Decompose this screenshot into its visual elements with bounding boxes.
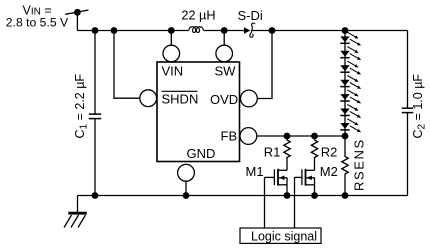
diode S-Di — [244, 23, 255, 37]
junction dot LED string top — [342, 27, 349, 34]
svg-text:M1: M1 — [246, 164, 264, 179]
junction dot SHDN branch — [111, 27, 118, 34]
wire VIN drop to top rail — [76, 12, 78, 30]
wire FB horizontal — [257, 135, 345, 137]
overline of SHDN — [162, 90, 198, 92]
transistor M1 — [265, 169, 288, 196]
capacitor C1 — [89, 31, 101, 196]
op-amp U1 IC body — [157, 62, 240, 162]
wire top rail middle segment — [204, 30, 244, 32]
LED D2 — [340, 47, 360, 60]
wire M2 gate to logic box — [294, 177, 296, 228]
svg-text:C1 = 2.2 µF: C1 = 2.2 µF — [73, 74, 90, 139]
pin circle VIN — [163, 45, 180, 62]
svg-text:SHDN: SHDN — [162, 91, 199, 106]
inductor L 22uH — [189, 27, 204, 33]
pin circle FB — [240, 128, 257, 145]
svg-text:RSENS: RSENS — [352, 138, 367, 191]
LED D7 — [340, 119, 360, 132]
svg-text:S-Di: S-Di — [238, 8, 263, 23]
wire top rail left segment — [77, 30, 188, 32]
wire SHDN branch — [114, 31, 140, 99]
svg-text:R2: R2 — [321, 145, 338, 160]
pin circle SW — [216, 45, 233, 62]
svg-text:22 µH: 22 µH — [181, 9, 215, 23]
svg-text:VIN: VIN — [162, 64, 184, 79]
junction dot GND pin — [183, 192, 190, 199]
svg-text:2.8 to 5.5 V: 2.8 to 5.5 V — [6, 16, 69, 30]
svg-text:OVD: OVD — [210, 92, 238, 107]
wire M1 gate to logic box — [264, 177, 266, 228]
resistor R1 — [284, 136, 290, 170]
LED string wire — [344, 31, 346, 137]
LED D3 — [340, 61, 360, 74]
wire bottom rail — [78, 195, 408, 197]
junction dot VIN pin — [168, 27, 175, 34]
pin circle OVD — [241, 90, 258, 107]
node VIN input terminal tap — [65, 9, 88, 16]
transistor M2 — [295, 169, 315, 196]
ground — [64, 196, 87, 228]
LED D6 — [340, 104, 360, 117]
junction dot LED string bottom — [342, 133, 349, 140]
junction dot RSENS bottom — [342, 192, 349, 199]
capacitor C2 — [402, 31, 413, 196]
svg-text:M2: M2 — [320, 164, 338, 179]
junction dot M1 source — [284, 192, 291, 199]
junction dot C1 top — [92, 27, 99, 34]
svg-text:SW: SW — [215, 64, 237, 79]
svg-text:R1: R1 — [264, 145, 281, 160]
svg-text:FB: FB — [221, 128, 238, 143]
wire OVD to rail — [257, 31, 272, 99]
svg-text:C2 = 1.0 µF: C2 = 1.0 µF — [411, 74, 428, 139]
logic signal box — [240, 228, 321, 243]
junction dot R2 top — [311, 133, 318, 140]
wire GND pin drop — [185, 181, 187, 195]
svg-text:GND: GND — [187, 146, 216, 161]
pin circle GND — [178, 164, 195, 181]
wire SW pin drop — [223, 31, 225, 46]
LED D4 — [340, 76, 360, 89]
wire top rail right segment — [252, 30, 407, 32]
LED D5 — [340, 90, 360, 103]
junction dot M2 source — [311, 192, 318, 199]
junction dot C1 bottom — [92, 192, 99, 199]
junction dot R1 top — [284, 133, 291, 140]
junction dot SW pin — [221, 27, 228, 34]
resistor RSENS — [342, 136, 348, 196]
wire VIN pin drop — [170, 31, 172, 46]
junction dot OVD branch — [269, 27, 276, 34]
resistor R2 — [311, 136, 317, 170]
svg-text:Logic signal: Logic signal — [251, 229, 317, 243]
LED D1 — [340, 32, 360, 45]
pin circle SHDN — [140, 90, 157, 107]
